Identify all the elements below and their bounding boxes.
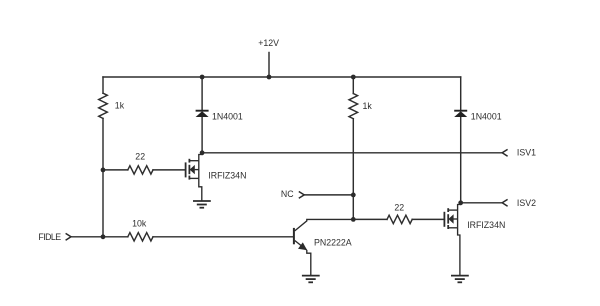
diode 1N4001 D2 bbox=[454, 111, 467, 117]
transistor Q2 IRFIZ34N (MOSFET) bbox=[444, 203, 460, 276]
wire: node to 22 (right) resistor bbox=[353, 218, 387, 220]
pin arrow: FIDLE bbox=[66, 233, 71, 240]
resistor 1k (middle) zigzag bbox=[349, 94, 358, 119]
svg-text:10k: 10k bbox=[132, 218, 147, 228]
junction dot: bus / D1 column bbox=[200, 75, 205, 80]
svg-text:1N4001: 1N4001 bbox=[212, 112, 243, 122]
wire: ISV2 output line bbox=[461, 202, 503, 204]
svg-text:FIDLE: FIDLE bbox=[38, 232, 61, 242]
transistor Q1 IRFIZ34N (MOSFET) bbox=[186, 153, 203, 201]
wire: 22 resistor to Q1 gate bbox=[153, 169, 186, 171]
svg-text:IRFIZ34N: IRFIZ34N bbox=[208, 170, 246, 180]
wire: ISV1 output line bbox=[202, 152, 502, 154]
wire: left column lower segment bbox=[102, 118, 104, 236]
svg-text:PN2222A: PN2222A bbox=[314, 238, 352, 248]
resistor 10k zigzag bbox=[128, 233, 153, 241]
ground (below Q3 emitter) bbox=[302, 276, 320, 283]
pin arrow: NC bbox=[299, 192, 304, 199]
junction dot: D1 / Q1 drain / ISV1 bbox=[200, 150, 205, 155]
ground (below Q1 source) bbox=[193, 201, 211, 208]
svg-text:+12V: +12V bbox=[258, 38, 279, 48]
pin arrow: ISV2 bbox=[502, 199, 507, 206]
wire: NC stub bbox=[304, 194, 353, 196]
wire: middle column upper segment bbox=[352, 77, 354, 94]
junction dot: NC / middle column bbox=[351, 193, 356, 198]
wire: top power bus bbox=[103, 76, 461, 78]
wire: diode D1 column lower bbox=[201, 117, 203, 153]
resistor 1k (left) zigzag bbox=[99, 93, 108, 118]
wire: FIDLE input line bbox=[71, 236, 128, 238]
wire: diode D2 column lower bbox=[460, 117, 462, 203]
svg-text:ISV2: ISV2 bbox=[517, 198, 536, 208]
junction dot: D2 / Q2 drain / ISV2 bbox=[458, 200, 463, 205]
wire: middle column lower segment bbox=[352, 119, 354, 220]
wire: left column upper segment bbox=[102, 77, 104, 93]
junction dot: node A (left column / 22) bbox=[101, 168, 106, 173]
junction dot: middle column / Q3 collector / 22 bbox=[351, 217, 356, 222]
svg-text:ISV1: ISV1 bbox=[517, 148, 536, 158]
wire: 10k to transistor base bbox=[153, 236, 293, 238]
resistor 22 (left) zigzag bbox=[128, 166, 153, 174]
svg-text:NC: NC bbox=[281, 189, 294, 199]
wire: gate line from node A to 22 resistor bbox=[103, 169, 128, 171]
svg-text:22: 22 bbox=[394, 203, 404, 213]
junction dot: bus / +12V bbox=[267, 75, 272, 80]
svg-text:1k: 1k bbox=[115, 100, 125, 110]
svg-text:22: 22 bbox=[135, 152, 145, 162]
svg-text:IRFIZ34N: IRFIZ34N bbox=[467, 220, 505, 230]
wire: 22 resistor to Q2 gate bbox=[412, 218, 444, 220]
transistor Q3 PN2222A (NPN) bbox=[294, 219, 353, 275]
wire: +12V supply stub bbox=[268, 53, 270, 78]
wire: diode D1 column upper bbox=[201, 77, 203, 110]
svg-text:1N4001: 1N4001 bbox=[471, 112, 502, 122]
diode 1N4001 D1 bbox=[196, 111, 209, 117]
svg-text:1k: 1k bbox=[363, 101, 373, 111]
junction dot: bus / middle column bbox=[351, 75, 356, 80]
pin arrow: ISV1 bbox=[502, 149, 507, 156]
ground (below Q2 source) bbox=[451, 276, 469, 283]
wire: diode D2 column upper bbox=[460, 77, 462, 110]
junction dot: FIDLE / left column bbox=[101, 234, 106, 239]
resistor 22 (right) zigzag bbox=[387, 215, 412, 223]
